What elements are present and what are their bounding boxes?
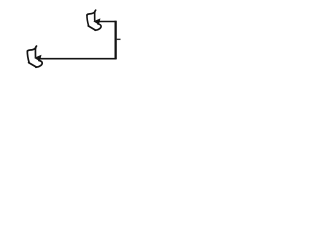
wire: bottom horizontal [37,58,117,60]
wire: top horizontal [98,20,116,22]
flag B (bottom-left) [27,46,42,67]
flag A (top) [87,10,101,30]
tick / stub on vertical wire [117,38,121,40]
wire: right vertical [115,21,117,59]
